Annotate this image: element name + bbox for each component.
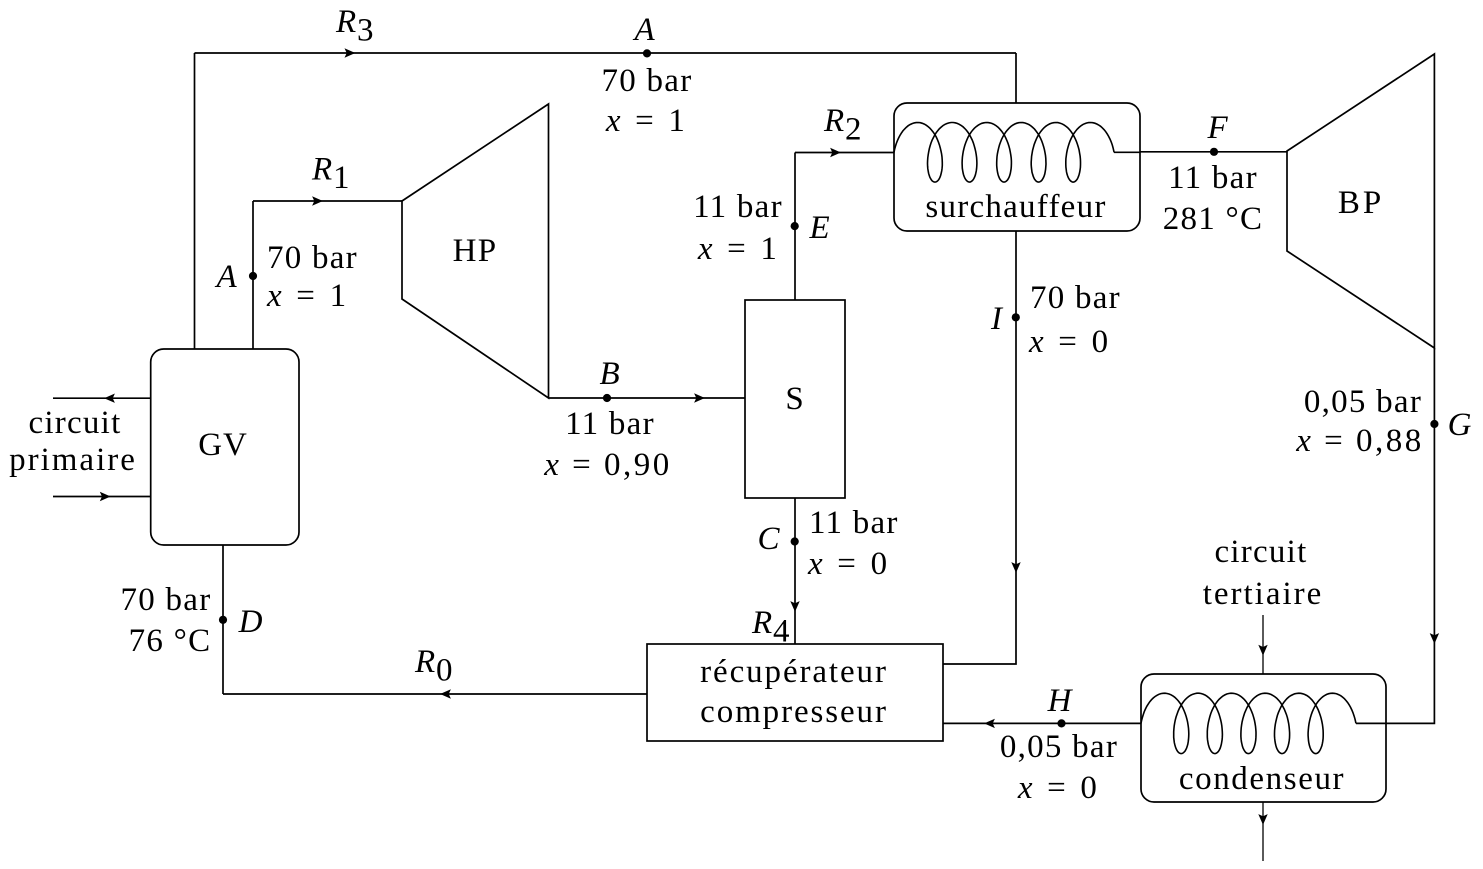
wire R1 horizontal to HP xyxy=(253,200,402,202)
svg-text:surchauffeur: surchauffeur xyxy=(925,189,1106,225)
svg-text:F: F xyxy=(1206,110,1228,146)
svg-text:70 bar: 70 bar xyxy=(121,582,212,618)
wire R3 drop into surchauffeur xyxy=(1015,53,1017,103)
svg-text:11 bar: 11 bar xyxy=(693,189,783,225)
node H xyxy=(1057,719,1065,727)
svg-text:C: C xyxy=(758,521,781,557)
separator S xyxy=(745,300,845,498)
svg-text:2: 2 xyxy=(845,112,862,148)
svg-text:G: G xyxy=(1448,407,1473,443)
flow arrow R1 xyxy=(312,196,323,205)
svg-text:11 bar: 11 bar xyxy=(809,505,899,541)
wire R0 from recuperateur to GV xyxy=(223,693,647,695)
node G xyxy=(1430,420,1438,428)
svg-text:x = 0: x = 0 xyxy=(1017,770,1100,806)
svg-text:R: R xyxy=(751,605,773,641)
svg-text:récupérateur: récupérateur xyxy=(700,654,888,690)
flow arrow R2 xyxy=(830,148,841,157)
svg-text:0,05 bar: 0,05 bar xyxy=(1000,729,1118,765)
condenseur coil tail xyxy=(1356,722,1386,724)
flow arrow H left xyxy=(984,719,995,728)
wire circuit tertiaire out xyxy=(1262,802,1264,861)
node A top xyxy=(643,49,651,57)
svg-text:tertiaire: tertiaire xyxy=(1203,576,1324,612)
flow arrow circuit primaire in xyxy=(100,492,111,501)
svg-text:0,05 bar: 0,05 bar xyxy=(1304,384,1422,420)
wire G down from BP to condenseur xyxy=(1386,348,1434,723)
flow arrow G down xyxy=(1430,633,1439,644)
svg-text:0: 0 xyxy=(436,653,453,689)
svg-text:R: R xyxy=(823,103,845,139)
svg-text:x = 1: x = 1 xyxy=(697,231,780,267)
svg-text:S: S xyxy=(785,381,804,417)
svg-text:1: 1 xyxy=(333,160,350,196)
svg-text:x = 0,88: x = 0,88 xyxy=(1295,423,1424,459)
svg-text:70 bar: 70 bar xyxy=(267,240,358,276)
wire B from HP to S xyxy=(549,397,746,399)
svg-text:A: A xyxy=(214,259,237,295)
wire circuit primaire in xyxy=(53,496,151,498)
svg-text:E: E xyxy=(808,210,830,246)
wire D from GV bottom xyxy=(222,545,224,694)
node C xyxy=(791,537,799,545)
svg-text:GV: GV xyxy=(198,427,247,463)
flow arrow circuit tertiaire out xyxy=(1258,814,1267,825)
svg-text:3: 3 xyxy=(357,13,374,49)
node A left xyxy=(249,272,257,280)
wire I from surchauffeur down to recuperateur xyxy=(943,231,1016,664)
wire circuit tertiaire in xyxy=(1262,615,1264,674)
svg-text:11 bar: 11 bar xyxy=(1168,160,1258,196)
svg-text:compresseur: compresseur xyxy=(700,694,888,730)
svg-text:circuit: circuit xyxy=(1214,534,1307,570)
node I xyxy=(1012,313,1020,321)
wire R1 riser from GV top xyxy=(252,201,254,349)
flow arrow I down xyxy=(1011,562,1020,573)
wire R2 horizontal into surchauffeur xyxy=(795,152,894,154)
turbine HP xyxy=(402,104,549,398)
node F xyxy=(1210,148,1218,156)
svg-text:x = 1: x = 1 xyxy=(605,103,688,139)
svg-text:x = 0: x = 0 xyxy=(1028,324,1111,360)
svg-text:BP: BP xyxy=(1338,185,1384,221)
flow arrow R4 down xyxy=(790,601,799,612)
flow arrow circuit primaire out xyxy=(104,394,115,403)
svg-text:H: H xyxy=(1047,683,1074,719)
flow arrow circuit tertiaire in xyxy=(1258,645,1267,656)
node B xyxy=(603,394,611,402)
svg-text:condenseur: condenseur xyxy=(1179,761,1345,797)
flow arrow B xyxy=(694,393,705,402)
surchauffeur coil tail xyxy=(1114,151,1140,153)
svg-text:B: B xyxy=(599,356,620,392)
wire H from condenseur to recuperateur xyxy=(943,722,1141,724)
svg-text:R: R xyxy=(414,644,436,680)
turbine BP xyxy=(1287,54,1434,348)
surchauffeur coil xyxy=(894,123,1114,183)
wire F from surchauffeur to BP xyxy=(1140,151,1287,153)
svg-text:76 °C: 76 °C xyxy=(129,623,212,659)
flow arrow R0 left xyxy=(440,689,451,698)
svg-text:4: 4 xyxy=(773,614,790,650)
steam generator GV box xyxy=(151,349,299,545)
condenser box condenseur xyxy=(1141,674,1386,802)
node E xyxy=(791,222,799,230)
svg-text:I: I xyxy=(990,301,1004,337)
wire circuit primaire out xyxy=(53,397,151,399)
svg-text:HP: HP xyxy=(453,233,498,269)
svg-text:circuit: circuit xyxy=(28,405,121,441)
svg-text:x = 0: x = 0 xyxy=(807,546,890,582)
svg-text:70 bar: 70 bar xyxy=(602,63,693,99)
svg-text:70 bar: 70 bar xyxy=(1030,280,1121,316)
svg-text:R: R xyxy=(311,152,333,188)
svg-text:A: A xyxy=(632,12,655,48)
svg-text:x = 1: x = 1 xyxy=(266,278,349,314)
wire R3 riser from GV top xyxy=(194,53,196,349)
svg-text:11 bar: 11 bar xyxy=(565,406,655,442)
superheater box surchauffeur xyxy=(894,103,1140,231)
wire R3 top horizontal xyxy=(195,52,1017,54)
svg-text:x = 0,90: x = 0,90 xyxy=(543,447,672,483)
flow arrow R3 xyxy=(345,48,356,57)
wire E riser from S to R2 xyxy=(794,153,796,301)
recuperateur compresseur box xyxy=(647,644,943,741)
svg-text:281 °C: 281 °C xyxy=(1163,201,1263,237)
svg-text:D: D xyxy=(238,604,264,640)
svg-text:primaire: primaire xyxy=(9,442,137,478)
condenseur coil xyxy=(1141,693,1356,753)
node D xyxy=(219,616,227,624)
wire R4 from S down to recuperateur xyxy=(794,498,796,644)
svg-text:R: R xyxy=(335,4,357,40)
